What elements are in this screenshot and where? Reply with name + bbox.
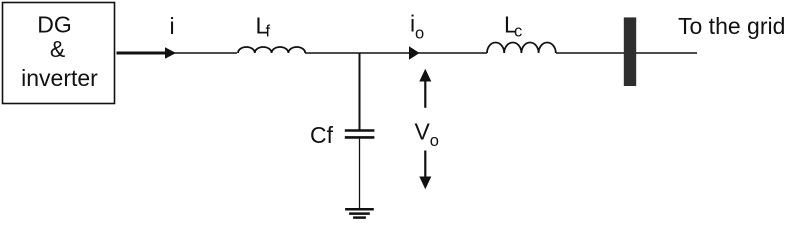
svg-text:i: i [170,13,175,39]
capacitor Cf [345,131,375,138]
wire: junction down to capacitor [359,53,361,130]
wire: Lf to arrow io [305,52,410,54]
grid bus bar [624,17,636,86]
current arrow i [117,47,177,58]
svg-text:o: o [415,25,424,43]
inductor Lc [487,42,556,53]
svg-text:&: & [50,36,65,62]
wire: arrow io to Lc [418,52,487,54]
voltage arrow Vo down [419,151,431,190]
inductor Lf [238,47,305,53]
svg-text:f: f [266,23,271,41]
svg-text:To the grid: To the grid [678,13,785,39]
voltage arrow Vo up [419,69,431,108]
label Vo [415,119,439,151]
label Lc [504,12,522,41]
wire: Lc to grid [556,52,697,54]
wire: arrow i to Lf [174,52,237,54]
current arrow io [409,46,420,59]
svg-text:V: V [415,119,431,145]
svg-text:inverter: inverter [21,65,98,91]
svg-text:c: c [514,23,522,41]
svg-text:Cf: Cf [310,122,334,148]
label io [410,11,424,43]
svg-text:o: o [430,132,439,150]
source block DG & inverter [3,3,115,104]
ground [345,209,374,217]
svg-text:DG: DG [37,12,72,38]
label Lf [256,13,271,41]
wire: capacitor to ground [359,139,361,210]
